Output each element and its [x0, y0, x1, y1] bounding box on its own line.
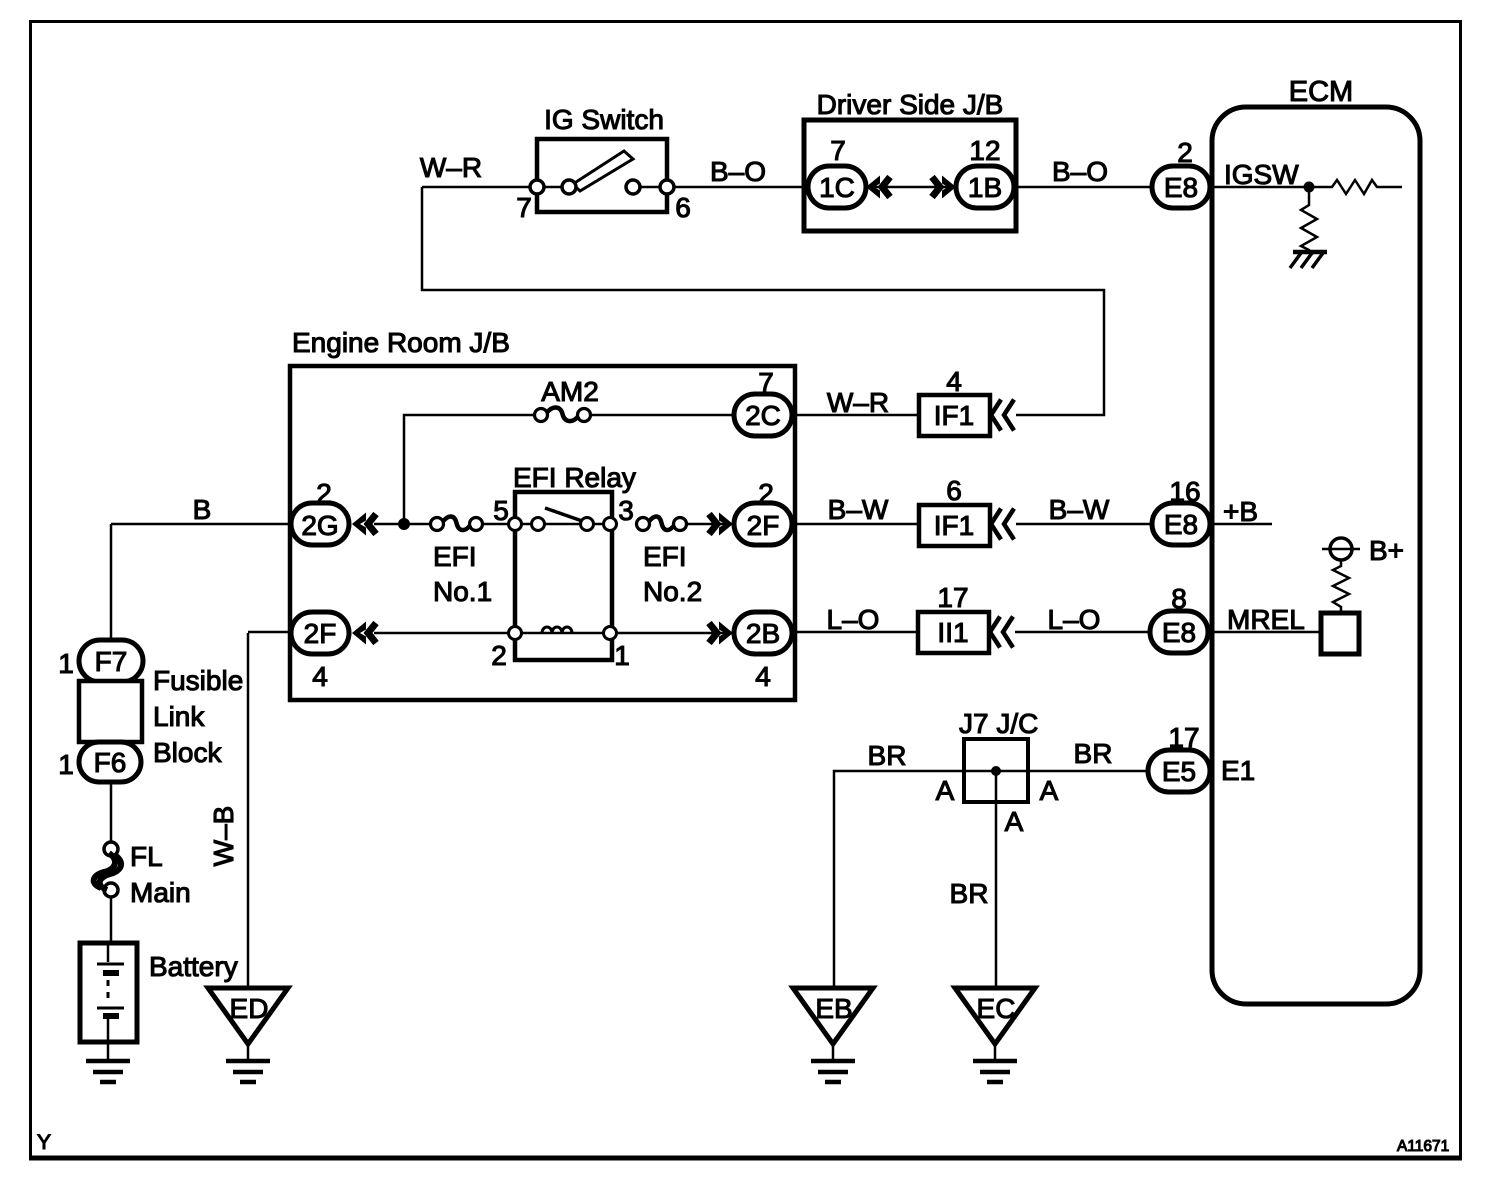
svg-text:FL: FL	[130, 841, 163, 872]
svg-text:A: A	[1005, 806, 1024, 837]
svg-text:4: 4	[946, 366, 962, 397]
svg-text:2: 2	[1177, 137, 1193, 168]
svg-text:Driver Side J/B: Driver Side J/B	[817, 89, 1004, 120]
svg-text:1: 1	[58, 648, 74, 679]
svg-text:2G: 2G	[301, 510, 338, 541]
svg-text:Engine Room J/B: Engine Room J/B	[292, 327, 510, 358]
svg-text:II1: II1	[937, 617, 968, 648]
svg-text:2C: 2C	[745, 400, 781, 431]
svg-text:IG Switch: IG Switch	[544, 104, 664, 135]
svg-text:B: B	[193, 494, 212, 525]
svg-text:E8: E8	[1164, 509, 1198, 540]
svg-text:2: 2	[758, 478, 774, 509]
svg-text:A: A	[936, 775, 955, 806]
svg-text:17: 17	[1168, 722, 1199, 753]
svg-text:J7 J/C: J7 J/C	[959, 708, 1038, 739]
svg-text:7: 7	[516, 192, 532, 223]
svg-text:12: 12	[969, 135, 1000, 166]
svg-text:3: 3	[618, 495, 634, 526]
svg-text:1B: 1B	[968, 172, 1002, 203]
svg-text:2: 2	[316, 478, 332, 509]
svg-text:7: 7	[758, 367, 774, 398]
svg-text:16: 16	[1169, 476, 1200, 507]
svg-text:L–O: L–O	[1048, 604, 1101, 635]
svg-text:EFI: EFI	[433, 541, 477, 572]
svg-text:B–O: B–O	[1052, 156, 1108, 187]
svg-text:W–R: W–R	[827, 387, 889, 418]
svg-text:W–B: W–B	[208, 806, 239, 867]
svg-text:5: 5	[493, 495, 509, 526]
svg-text:IF1: IF1	[934, 510, 974, 541]
svg-text:8: 8	[1171, 583, 1187, 614]
svg-text:B+: B+	[1369, 535, 1404, 566]
svg-text:4: 4	[312, 661, 328, 692]
svg-text:6: 6	[946, 475, 962, 506]
svg-text:Link: Link	[153, 701, 205, 732]
svg-text:IF1: IF1	[934, 400, 974, 431]
svg-text:2F: 2F	[747, 510, 780, 541]
svg-text:1: 1	[614, 640, 630, 671]
svg-text:IGSW: IGSW	[1224, 159, 1299, 190]
svg-text:F7: F7	[95, 646, 128, 677]
svg-text:4: 4	[755, 661, 771, 692]
svg-text:2F: 2F	[304, 618, 337, 649]
svg-text:7: 7	[830, 135, 846, 166]
svg-text:BR: BR	[950, 878, 989, 909]
svg-text:AM2: AM2	[541, 376, 599, 407]
svg-text:6: 6	[675, 192, 691, 223]
svg-text:17: 17	[937, 582, 968, 613]
svg-text:1C: 1C	[819, 172, 855, 203]
svg-text:BR: BR	[1074, 738, 1113, 769]
svg-text:No.2: No.2	[643, 576, 702, 607]
svg-text:B–O: B–O	[710, 156, 766, 187]
svg-text:E5: E5	[1162, 756, 1196, 787]
svg-text:F6: F6	[94, 747, 127, 778]
svg-text:Fusible: Fusible	[153, 665, 243, 696]
svg-text:E1: E1	[1221, 755, 1255, 786]
svg-text:B–W: B–W	[828, 494, 889, 525]
svg-text:No.1: No.1	[433, 576, 492, 607]
svg-text:L–O: L–O	[827, 604, 880, 635]
svg-text:EFI: EFI	[643, 541, 687, 572]
svg-text:BR: BR	[868, 740, 907, 771]
svg-text:B–W: B–W	[1049, 494, 1110, 525]
svg-text:Main: Main	[130, 877, 191, 908]
svg-text:W–R: W–R	[420, 152, 482, 183]
svg-text:E8: E8	[1162, 617, 1196, 648]
svg-text:2: 2	[491, 640, 507, 671]
svg-text:ECM: ECM	[1289, 76, 1353, 108]
svg-text:+B: +B	[1223, 496, 1258, 527]
svg-text:1: 1	[58, 749, 74, 780]
svg-text:A: A	[1040, 775, 1059, 806]
svg-text:Y: Y	[37, 1131, 51, 1154]
svg-text:ED: ED	[230, 993, 269, 1024]
svg-text:MREL: MREL	[1227, 604, 1305, 635]
svg-text:2B: 2B	[746, 618, 780, 649]
svg-text:Battery: Battery	[149, 951, 238, 982]
svg-text:A11671: A11671	[1397, 1138, 1449, 1155]
svg-text:EC: EC	[977, 993, 1016, 1024]
svg-text:EFI Relay: EFI Relay	[513, 462, 636, 493]
svg-text:Block: Block	[153, 737, 222, 768]
svg-text:E8: E8	[1164, 172, 1198, 203]
svg-text:EB: EB	[815, 993, 852, 1024]
